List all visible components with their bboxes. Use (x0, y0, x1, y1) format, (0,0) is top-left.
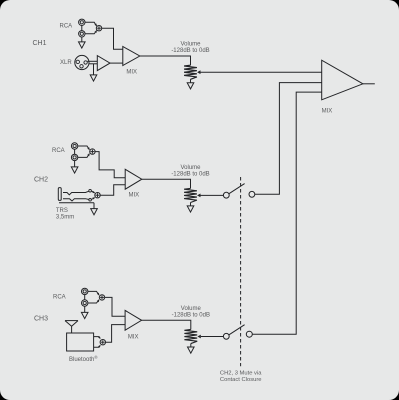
svg-text:XLR: XLR (60, 60, 72, 66)
svg-text:Contact Closure: Contact Closure (220, 377, 262, 383)
svg-text:Volume: Volume (180, 165, 201, 171)
svg-text:MIX: MIX (128, 334, 139, 340)
svg-text:-128dB to 0dB: -128dB to 0dB (172, 313, 210, 319)
svg-text:CH2: CH2 (34, 176, 48, 183)
svg-text:Bluetooth®: Bluetooth® (69, 355, 98, 363)
svg-text:MIX: MIX (126, 69, 137, 75)
svg-text:CH3: CH3 (34, 315, 48, 322)
svg-text:RCA: RCA (52, 148, 65, 154)
svg-text:3,5mm: 3,5mm (56, 214, 74, 220)
svg-text:CH1: CH1 (33, 40, 47, 47)
svg-text:MIX: MIX (128, 193, 139, 199)
svg-text:Volume: Volume (181, 306, 202, 312)
svg-text:RCA: RCA (53, 295, 66, 301)
svg-text:RCA: RCA (60, 24, 73, 30)
svg-text:-128dB to 0dB: -128dB to 0dB (171, 48, 209, 54)
svg-text:Volume: Volume (180, 42, 201, 48)
svg-text:CH2, 3 Mute via: CH2, 3 Mute via (220, 371, 262, 377)
svg-text:TRS: TRS (56, 208, 68, 214)
svg-text:MIX: MIX (322, 108, 333, 114)
svg-text:-128dB to 0dB: -128dB to 0dB (171, 171, 209, 177)
